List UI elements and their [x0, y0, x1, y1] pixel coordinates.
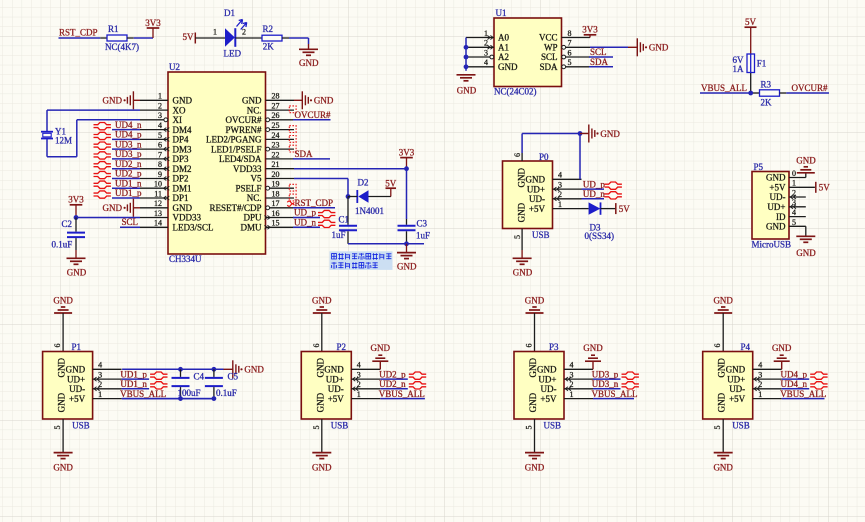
svg-text:VDD33: VDD33 [173, 213, 202, 223]
ground [796, 155, 816, 172]
svg-text:+5V: +5V [328, 394, 345, 404]
svg-text:UD+: UD+ [767, 202, 785, 212]
power 5V [816, 182, 831, 193]
wire [406, 169, 408, 219]
svg-text:WP: WP [544, 43, 558, 53]
node junction [404, 166, 409, 171]
svg-text:C5: C5 [228, 371, 239, 381]
svg-text:UD4_n: UD4_n [115, 120, 142, 130]
svg-text:+5V: +5V [529, 204, 546, 214]
svg-text:C1: C1 [339, 215, 350, 225]
svg-text:8: 8 [158, 160, 162, 169]
svg-text:SCL: SCL [541, 52, 558, 62]
svg-text:3: 3 [484, 48, 488, 57]
svg-text:DP4: DP4 [173, 135, 190, 145]
svg-text:UD-: UD- [328, 384, 344, 394]
wire [722, 313, 724, 352]
wire [122, 398, 214, 400]
svg-text:11: 11 [154, 189, 162, 198]
U2 pin decorations [164, 118, 271, 229]
svg-text:GND: GND [103, 203, 123, 213]
svg-text:0.1uF: 0.1uF [52, 239, 73, 249]
svg-text:USB: USB [72, 421, 90, 431]
svg-text:8: 8 [568, 29, 572, 38]
svg-text:GND: GND [583, 343, 603, 353]
net label VBUS_ALL at P4 pin 1 [780, 389, 826, 399]
svg-text:UD1_p: UD1_p [115, 188, 142, 198]
svg-text:GND: GND [53, 295, 73, 305]
no-connect marker U2 pin 23 [289, 145, 296, 152]
wire [534, 313, 536, 352]
svg-text:GND: GND [772, 343, 792, 353]
wire [521, 229, 523, 251]
svg-text:GND: GND [57, 392, 67, 412]
svg-text:GND: GND [312, 295, 332, 305]
ground (top of P2) [312, 295, 332, 313]
svg-text:6: 6 [713, 344, 722, 348]
connector P2 (USB) [301, 342, 380, 431]
svg-text:UD2_n: UD2_n [379, 379, 406, 389]
capacitor C1 1uF [332, 197, 358, 244]
svg-text:17: 17 [272, 199, 280, 208]
svg-text:GND: GND [299, 58, 319, 68]
net label SDA at U2 pin 22 [293, 149, 330, 159]
wire [59, 37, 101, 39]
net label UD4_p at U2 pin 5 [94, 130, 142, 140]
svg-text:LED3/SCL: LED3/SCL [173, 223, 214, 233]
power port GND at U2 pin 28 [294, 91, 334, 109]
svg-text:5V: 5V [745, 17, 757, 27]
svg-text:GND: GND [649, 43, 669, 53]
svg-text:6: 6 [513, 153, 522, 157]
svg-text:RST_CDP: RST_CDP [295, 198, 334, 208]
svg-text:UD_n: UD_n [294, 218, 316, 228]
svg-text:F1: F1 [757, 59, 767, 69]
svg-text:A2: A2 [498, 52, 509, 62]
svg-text:VDD33: VDD33 [233, 164, 262, 174]
U1 pin stubs [466, 38, 590, 67]
node junction [346, 194, 351, 199]
svg-text:UD2_n: UD2_n [115, 159, 142, 169]
node junction [178, 396, 183, 401]
power port GND at U2 pin 1 [103, 91, 141, 109]
svg-text:4: 4 [484, 58, 488, 67]
svg-text:26: 26 [272, 111, 280, 120]
svg-text:UD-: UD- [729, 384, 745, 394]
wire [805, 173, 807, 177]
svg-text:GND: GND [526, 175, 546, 185]
wire [348, 243, 424, 245]
svg-text:2: 2 [158, 102, 162, 111]
svg-text:GND: GND [315, 392, 325, 412]
svg-text:MicroUSB: MicroUSB [752, 240, 792, 250]
ground [299, 48, 318, 50]
svg-text:UD+: UD+ [538, 374, 556, 384]
svg-text:3V3: 3V3 [399, 147, 415, 157]
svg-text:GND: GND [53, 462, 73, 472]
svg-text:DM4: DM4 [173, 125, 193, 135]
svg-text:GND: GND [796, 248, 816, 258]
svg-text:R3: R3 [761, 80, 772, 90]
svg-text:GND: GND [324, 365, 344, 375]
wire [195, 37, 225, 39]
svg-text:18: 18 [272, 189, 280, 198]
power port GND [580, 125, 620, 143]
svg-text:1uF: 1uF [332, 230, 346, 240]
svg-text:1uF: 1uF [416, 231, 430, 241]
net label UD4_n at U2 pin 4 [94, 120, 142, 130]
wire [700, 92, 753, 94]
svg-text:GND: GND [457, 86, 477, 96]
svg-text:GND: GND [517, 168, 527, 188]
svg-text:DMU: DMU [240, 223, 262, 233]
svg-text:27: 27 [272, 102, 280, 111]
svg-text:GND: GND [713, 462, 733, 472]
svg-text:3: 3 [158, 111, 162, 120]
svg-text:+5V: +5V [540, 394, 557, 404]
svg-text:1A: 1A [733, 64, 745, 74]
svg-text:GND: GND [314, 96, 334, 106]
svg-text:DPU: DPU [243, 213, 262, 223]
svg-text:P5: P5 [754, 162, 764, 172]
svg-text:7: 7 [158, 150, 162, 159]
svg-text:UD-: UD- [529, 194, 545, 204]
svg-text:D1: D1 [224, 8, 235, 18]
svg-text:20: 20 [272, 170, 280, 179]
svg-text:GND: GND [525, 295, 545, 305]
LED D1 [225, 28, 235, 47]
no-connect marker U2 pin 18 [289, 194, 296, 201]
svg-text:USB: USB [331, 421, 349, 431]
wire [579, 134, 581, 180]
svg-text:P4: P4 [741, 342, 751, 352]
svg-text:+5V: +5V [769, 183, 786, 193]
svg-text:UD4_p: UD4_p [115, 130, 142, 140]
svg-text:DP1: DP1 [173, 193, 189, 203]
svg-text:GND: GND [796, 155, 816, 165]
svg-text:PWREN#: PWREN# [226, 125, 263, 135]
connector P4 (USB) [703, 342, 782, 431]
power port GND [224, 360, 265, 378]
wire [321, 313, 323, 352]
svg-text:GND: GND [173, 203, 193, 213]
svg-text:SDA: SDA [539, 62, 558, 72]
ground [513, 258, 533, 277]
svg-text:OVCUR#: OVCUR# [295, 110, 332, 120]
svg-text:25: 25 [272, 121, 280, 130]
power 5V [616, 203, 631, 214]
wire [805, 226, 807, 236]
svg-text:GND: GND [766, 222, 786, 232]
U2 pin stubs [140, 100, 294, 227]
svg-text:6: 6 [53, 344, 62, 348]
svg-text:GND: GND [312, 462, 332, 472]
svg-text:2: 2 [484, 39, 488, 48]
svg-text:C4: C4 [194, 371, 205, 381]
net label UD4_p at P4 pin 3 [781, 369, 828, 379]
ground [67, 258, 87, 277]
wire [62, 313, 64, 352]
diode D3 0(SS34) [582, 202, 616, 241]
wire [76, 217, 140, 219]
svg-text:OVCUR#: OVCUR# [225, 115, 262, 125]
svg-text:GND: GND [717, 358, 727, 378]
U1 pin decorations [487, 36, 565, 69]
net label UD_n at U2 pin 15 [293, 218, 335, 228]
wire [235, 37, 262, 39]
net label UD4_n at P4 pin 2 [781, 379, 828, 389]
resistor R2 [262, 35, 282, 41]
svg-text:C2: C2 [62, 219, 73, 229]
svg-text:UD-: UD- [69, 384, 85, 394]
wire [522, 134, 580, 162]
svg-text:16: 16 [272, 209, 280, 218]
svg-text:LED2/PGANG: LED2/PGANG [206, 135, 262, 145]
svg-text:1: 1 [213, 28, 217, 37]
wire [321, 419, 323, 452]
svg-text:A0: A0 [498, 33, 509, 43]
svg-text:UD_p: UD_p [583, 179, 605, 189]
svg-text:GND: GND [726, 365, 746, 375]
svg-text:USB: USB [544, 421, 562, 431]
connector P1 (USB) [43, 342, 122, 431]
wire [348, 196, 357, 198]
svg-text:5: 5 [53, 426, 62, 430]
no-connect marker U2 pin 27 [289, 106, 296, 113]
svg-text:UD3_n: UD3_n [115, 139, 142, 149]
svg-text:SCL: SCL [590, 47, 607, 57]
svg-text:7: 7 [568, 39, 572, 48]
svg-text:PSELF: PSELF [235, 183, 261, 193]
net label RST_CDP at U2 pin 17 [287, 198, 335, 208]
svg-text:VCC: VCC [539, 33, 558, 43]
svg-text:6: 6 [525, 344, 534, 348]
net label SCL at U2 pin 14 [120, 217, 140, 227]
net label VBUS_ALL at P3 pin 1 [592, 389, 638, 399]
U2 pin names and numbers [154, 92, 280, 233]
node junction [178, 367, 183, 372]
ground (top of P4) [713, 295, 733, 313]
net label UD1_n at P1 pin 2 [120, 379, 167, 389]
svg-text:UD4_n: UD4_n [781, 379, 808, 389]
svg-text:28: 28 [272, 92, 280, 101]
svg-text:3V3: 3V3 [145, 18, 161, 28]
wire [47, 110, 140, 157]
ground (bottom of P4) [713, 453, 733, 473]
svg-text:A1: A1 [498, 43, 509, 53]
crystal Y1 12M [41, 126, 72, 145]
svg-text:5V: 5V [385, 178, 397, 188]
svg-text:USB: USB [732, 421, 750, 431]
svg-text:1: 1 [484, 29, 488, 38]
svg-text:GND: GND [67, 268, 87, 278]
svg-text:R1: R1 [108, 24, 119, 34]
svg-text:5V: 5V [619, 204, 631, 214]
svg-text:XO: XO [173, 105, 186, 115]
svg-text:21: 21 [272, 160, 280, 169]
svg-text:GND: GND [173, 96, 193, 106]
node junction [74, 215, 79, 220]
svg-text:4: 4 [98, 361, 102, 370]
net label UD2_p at P2 pin 3 [379, 369, 426, 379]
svg-text:VBUS_ALL: VBUS_ALL [379, 389, 425, 399]
svg-text:GND: GND [244, 365, 264, 375]
power 5V [385, 178, 397, 196]
svg-text:10: 10 [154, 180, 162, 189]
no-connect marker U2 pin 19 [289, 184, 296, 191]
wire [294, 179, 348, 197]
svg-text:3V3: 3V3 [582, 25, 598, 35]
svg-text:VBUS_ALL: VBUS_ALL [780, 389, 826, 399]
svg-text:2K: 2K [263, 42, 275, 52]
svg-text:C3: C3 [417, 219, 428, 229]
svg-text:UD2_p: UD2_p [379, 369, 406, 379]
ground (bottom of P2) [312, 453, 332, 473]
svg-text:GND: GND [528, 358, 538, 378]
svg-text:UD+: UD+ [67, 374, 85, 384]
svg-text:0: 0 [792, 169, 796, 178]
svg-text:UD2_p: UD2_p [115, 169, 142, 179]
wire [590, 46, 628, 48]
svg-text:LED4/SDA: LED4/SDA [219, 154, 262, 164]
svg-text:U2: U2 [169, 62, 180, 72]
svg-text:RST_CDP: RST_CDP [59, 28, 98, 38]
svg-text:RESET#/CDP: RESET#/CDP [209, 203, 261, 213]
svg-text:GND: GND [766, 173, 786, 183]
ground (above pin 4) [371, 343, 391, 370]
svg-text:P2: P2 [337, 342, 347, 352]
net label VBUS_ALL at P2 pin 1 [379, 389, 425, 399]
capacitor C5 0.1uF [205, 369, 239, 398]
svg-text:4: 4 [158, 121, 162, 130]
ground (bottom of P1) [53, 453, 73, 473]
svg-text:12M: 12M [55, 136, 72, 146]
svg-text:1: 1 [570, 390, 574, 399]
svg-text:SDA: SDA [295, 149, 314, 159]
svg-text:DP2: DP2 [173, 174, 189, 184]
svg-text:UD1_n: UD1_n [115, 178, 142, 188]
net label UD1_p at P1 pin 3 [120, 369, 167, 379]
power port GND at U2 pin 12 [103, 199, 141, 217]
svg-text:+5V: +5V [729, 394, 746, 404]
node junction [748, 91, 753, 96]
svg-text:+5V: +5V [69, 394, 86, 404]
svg-text:UD_n: UD_n [583, 189, 605, 199]
connector P0 (USB) [503, 152, 582, 240]
svg-text:GND: GND [397, 262, 417, 272]
svg-text:GND: GND [66, 365, 86, 375]
svg-text:2K: 2K [761, 98, 773, 108]
svg-text:5: 5 [312, 426, 321, 430]
svg-text:GND: GND [57, 358, 67, 378]
svg-text:19: 19 [272, 180, 280, 189]
net label UD1_n at U2 pin 10 [94, 178, 142, 188]
net label UD_n at P0 pin 2 [582, 189, 622, 199]
resistor R3 [760, 80, 780, 108]
svg-text:2: 2 [242, 28, 246, 37]
svg-text:UD-: UD- [770, 192, 786, 202]
svg-text:V5: V5 [251, 174, 262, 184]
svg-text:5: 5 [568, 58, 572, 67]
svg-text:5: 5 [792, 218, 796, 227]
svg-text:1: 1 [98, 390, 102, 399]
node junction [404, 241, 409, 246]
capacitor C2 0.1uF [52, 218, 86, 259]
ground [457, 75, 477, 96]
net label OVCUR# at U2 pin 26 [293, 110, 331, 120]
svg-text:1N4001: 1N4001 [355, 206, 384, 216]
wire [122, 368, 223, 370]
svg-text:DM2: DM2 [173, 164, 192, 174]
svg-text:0(SS34): 0(SS34) [585, 231, 615, 241]
svg-text:4: 4 [357, 361, 361, 370]
svg-text:OVCUR#: OVCUR# [792, 83, 829, 93]
svg-text:XI: XI [173, 115, 183, 125]
connector P5 (MicroUSB) [752, 162, 815, 250]
svg-text:1: 1 [357, 390, 361, 399]
svg-text:15: 15 [272, 219, 280, 228]
note text block [330, 251, 393, 270]
svg-text:12: 12 [154, 199, 162, 208]
svg-text:UD1_p: UD1_p [120, 369, 147, 379]
svg-text:4: 4 [558, 171, 562, 180]
svg-text:5: 5 [513, 235, 522, 239]
power port GND at U1 pin 7 [628, 38, 669, 56]
svg-text:NC(4K7): NC(4K7) [105, 42, 139, 52]
svg-text:GND: GND [315, 358, 325, 378]
svg-text:R2: R2 [263, 24, 274, 34]
svg-text:GND: GND [528, 392, 538, 412]
svg-text:SDA: SDA [590, 57, 609, 67]
svg-text:9: 9 [158, 170, 162, 179]
svg-text:UD_p: UD_p [294, 208, 316, 218]
svg-text:13: 13 [154, 209, 162, 218]
svg-text:GND: GND [513, 268, 533, 278]
svg-text:UD+: UD+ [527, 184, 545, 194]
svg-text:1: 1 [158, 92, 162, 101]
net label UD3_n at U2 pin 6 [94, 139, 142, 149]
svg-text:U1: U1 [496, 8, 507, 18]
svg-text:6: 6 [568, 48, 572, 57]
svg-text:UD4_p: UD4_p [781, 369, 808, 379]
ground (above pin 4) [583, 343, 603, 370]
op-amp U2 body (CH334U) [168, 72, 266, 254]
net label UD3_n at P3 pin 2 [592, 379, 639, 389]
no-connect marker U2 pin 25 [289, 126, 296, 133]
resistor R1 [100, 24, 139, 52]
svg-text:14: 14 [154, 219, 162, 228]
ground [397, 244, 417, 272]
svg-text:UD+: UD+ [326, 374, 344, 384]
svg-text:4: 4 [792, 208, 796, 217]
net label UD3_p at U2 pin 7 [94, 149, 142, 159]
wire [722, 419, 724, 452]
svg-text:P0: P0 [539, 152, 549, 162]
svg-text:SCL: SCL [122, 217, 139, 227]
ground (bottom of P3) [525, 453, 545, 473]
ground (top of P1) [53, 295, 73, 313]
wire [464, 38, 469, 71]
wire [534, 419, 536, 452]
svg-text:3V3: 3V3 [68, 195, 84, 205]
wire [134, 37, 153, 39]
svg-text:1: 1 [792, 179, 796, 188]
capacitor C3 1uF [398, 219, 431, 244]
svg-text:GND: GND [713, 295, 733, 305]
svg-text:P3: P3 [549, 342, 559, 352]
svg-text:GND: GND [717, 392, 727, 412]
svg-text:24: 24 [272, 131, 280, 140]
